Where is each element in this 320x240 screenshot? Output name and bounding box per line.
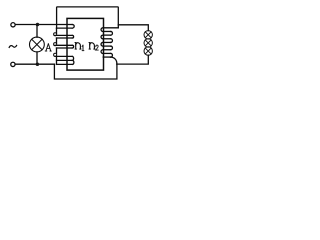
lamp A <box>30 37 45 52</box>
lamp L3 <box>144 47 152 55</box>
winding arc right <box>111 46 113 50</box>
winding hook left <box>101 35 103 39</box>
winding vertical <box>56 56 58 64</box>
wire bottom return detour <box>54 64 117 79</box>
secondary feed line <box>103 27 118 29</box>
label n1 <box>75 43 84 51</box>
winding arc right <box>111 53 113 57</box>
turn line <box>103 56 110 58</box>
turn line <box>103 38 110 40</box>
terminal top-left <box>11 23 15 27</box>
wire top primary <box>15 24 72 26</box>
lamp L1 <box>144 31 152 39</box>
winding arc right <box>72 56 73 60</box>
turn line <box>57 47 73 49</box>
wire bypass top (source to secondary top) <box>57 7 119 28</box>
winding hook loop <box>54 53 57 56</box>
winding arc right <box>72 60 74 64</box>
turn line <box>57 37 73 39</box>
wire lamps bottom <box>117 55 148 64</box>
primary winding n1 <box>54 25 75 65</box>
turn line <box>55 44 72 46</box>
turn line <box>103 30 110 32</box>
winding hook left <box>101 50 103 54</box>
node junction dot top <box>36 23 40 27</box>
turn line <box>103 45 110 47</box>
winding arc right <box>111 57 117 64</box>
winding hook loop <box>54 33 57 36</box>
turn line <box>103 34 110 36</box>
winding vertical <box>56 38 58 43</box>
winding arc right <box>72 35 73 38</box>
AC source symbol ~ <box>9 46 16 48</box>
winding hook left <box>101 42 103 46</box>
winding return line <box>57 63 73 65</box>
label A <box>45 44 51 51</box>
turn line <box>57 59 73 61</box>
turn line <box>57 27 73 29</box>
wire lamps top <box>118 25 148 31</box>
transformer core <box>67 18 104 70</box>
winding arc right <box>111 31 113 35</box>
wire bottom primary <box>15 63 54 65</box>
lamp L2 <box>144 39 152 47</box>
turn line <box>103 49 110 51</box>
winding arc right <box>111 39 113 43</box>
winding arc right <box>72 45 73 48</box>
secondary winding n2 <box>101 28 118 64</box>
winding arc right <box>72 25 74 29</box>
winding hook loop <box>54 43 57 46</box>
wire lamp A bottom lead <box>36 52 38 64</box>
node junction dot bottom <box>36 62 40 66</box>
label n2 <box>89 43 98 51</box>
turn line <box>103 41 110 43</box>
wire lamp A top lead <box>36 25 38 38</box>
turn line <box>103 52 110 54</box>
winding vertical <box>56 28 58 33</box>
turn line <box>55 55 72 57</box>
turn line <box>55 34 72 36</box>
winding vertical <box>56 48 58 53</box>
terminal bottom-left <box>11 62 15 66</box>
winding hook left <box>101 28 103 32</box>
